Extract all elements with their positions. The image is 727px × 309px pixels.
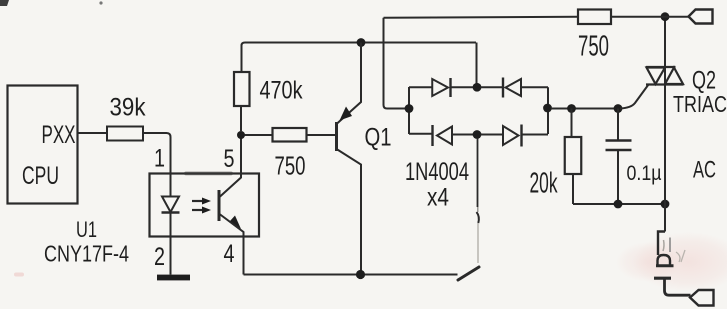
connector bottom right — [690, 290, 714, 306]
wire rail down to bridge top node — [476, 43, 478, 85]
wire triac main vertical — [664, 17, 666, 232]
connector stack upper hook — [658, 232, 665, 256]
opto light arrows — [192, 198, 211, 214]
bridge right edge — [547, 87, 549, 134]
resistor 470k — [234, 72, 250, 106]
opto phototransistor — [218, 190, 221, 221]
svg-text:CPU: CPU — [22, 162, 59, 190]
node cap bottom — [614, 200, 623, 209]
node cap tap — [614, 104, 623, 113]
svg-text:5: 5 — [224, 145, 235, 173]
wire 470k to top rail — [242, 43, 477, 73]
node bridge top — [473, 83, 482, 92]
wire node to R 750 left — [245, 134, 273, 136]
smudge on opto box top — [184, 172, 233, 176]
transistor Q1 — [335, 122, 338, 151]
svg-text:2: 2 — [154, 243, 165, 271]
diode D1 — [409, 86, 432, 88]
wire x383 vertical to bridge left node — [384, 18, 407, 109]
svg-text:39k: 39k — [110, 94, 146, 122]
node Q1 collector rail — [357, 38, 366, 47]
pink dash lower left — [14, 273, 24, 277]
svg-text:750: 750 — [275, 151, 306, 181]
joint diagonal to bridge bottom — [458, 267, 479, 280]
svg-text:TRIAC: TRIAC — [673, 91, 727, 117]
svg-text:470k: 470k — [260, 77, 303, 105]
pink watermark blobs — [633, 232, 727, 292]
node 20k tap — [567, 104, 576, 113]
svg-text:750: 750 — [578, 31, 609, 63]
wire bridge right to gate node — [551, 108, 620, 110]
svg-text:0.1µ: 0.1µ — [627, 162, 662, 185]
top rail wire from x383 — [384, 17, 579, 18]
svg-text:1N4004: 1N4004 — [405, 158, 469, 186]
node pin5/470k/750 — [237, 131, 245, 139]
wire CPU output to R 39k — [78, 132, 107, 134]
connector cup — [658, 255, 671, 266]
resistor 750 top — [578, 10, 611, 25]
capacitor 0.1u — [617, 109, 619, 140]
wire pin 2 to ground — [170, 236, 172, 275]
resistor 750 left — [273, 128, 307, 142]
wire to bottom connector — [665, 278, 691, 295]
wire 39k to opto pin 1 — [143, 133, 171, 175]
wire bottom right rail — [573, 203, 665, 205]
svg-text:AC: AC — [693, 157, 716, 184]
svg-text:1: 1 — [154, 145, 165, 173]
ground — [157, 275, 190, 281]
wire node up to 470k — [240, 106, 242, 131]
svg-text:U1: U1 — [76, 217, 97, 242]
diode D4 — [481, 134, 504, 136]
wire 20k down — [572, 174, 574, 204]
svg-text:Q1: Q1 — [365, 124, 392, 152]
resistor 20k — [565, 137, 582, 174]
svg-text:4: 4 — [224, 240, 235, 268]
CPU block — [8, 86, 78, 204]
scan speck — [99, 1, 102, 4]
wire 750 top to connector — [611, 16, 689, 18]
node top rail triac — [661, 12, 670, 21]
svg-text:20k: 20k — [530, 168, 558, 200]
optocoupler U1 body — [150, 174, 260, 237]
svg-text:x4: x4 — [427, 184, 449, 212]
resistor 39k — [107, 127, 143, 141]
diode D2 — [481, 86, 504, 88]
wire bridge bottom node down — [477, 139, 479, 208]
node bridge left — [405, 104, 414, 113]
node triac MT1 — [661, 200, 670, 209]
wire 750 to Q1 base — [307, 134, 337, 136]
svg-text:CNY17F-4: CNY17F-4 — [44, 241, 129, 267]
wire emitter rail bottom — [244, 274, 458, 276]
wire to 20k — [571, 109, 573, 138]
diode D3 — [409, 133, 432, 135]
scan corner mark — [0, 0, 9, 6]
connector crossing blade — [654, 277, 671, 280]
diode bridge left edge — [408, 87, 410, 134]
wire gate diagonal — [620, 85, 649, 109]
opto LED D5 — [170, 175, 172, 197]
triac Q2 symbol — [646, 67, 684, 85]
svg-text:PXX: PXX — [42, 121, 76, 149]
connector top right — [689, 10, 713, 24]
node bridge bottom — [473, 130, 482, 139]
node bridge right — [543, 104, 552, 113]
node emitter rail — [356, 270, 365, 279]
